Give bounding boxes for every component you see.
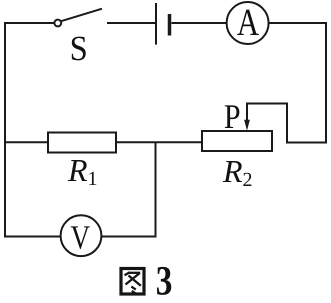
switch S lever bbox=[61, 9, 102, 22]
rheostat R2 box bbox=[202, 131, 272, 151]
wire ammeter to top-right corner bbox=[269, 22, 327, 24]
battery short plate bbox=[168, 14, 172, 36]
wire bottom-right horizontal bbox=[286, 142, 327, 144]
resistor R1 box bbox=[48, 133, 116, 153]
svg-text:A: A bbox=[237, 0, 259, 43]
svg-text:R2: R2 bbox=[222, 153, 253, 191]
caption: character 图 drawn as strokes bbox=[121, 269, 144, 295]
slider P arrowhead bbox=[244, 120, 250, 131]
wire voltmeter to junction bbox=[101, 236, 157, 238]
wire bottom horizontal left of voltmeter bbox=[4, 236, 61, 238]
svg-text:S: S bbox=[70, 29, 88, 68]
wire junction vertical to voltmeter loop bbox=[155, 142, 157, 237]
slider P arrow stem bbox=[246, 103, 248, 124]
wire left to R1 bbox=[4, 141, 48, 143]
voltmeter V circle bbox=[61, 215, 102, 256]
wire battery to ammeter bbox=[172, 22, 227, 24]
wire left vertical bbox=[4, 22, 6, 238]
svg-text:V: V bbox=[70, 219, 90, 256]
switch S pivot bbox=[54, 20, 61, 27]
wire riser to slider bbox=[286, 103, 288, 144]
battery long plate bbox=[155, 3, 157, 45]
svg-text:P: P bbox=[224, 98, 241, 136]
wire top-left horizontal bbox=[4, 22, 55, 24]
svg-text:R1: R1 bbox=[67, 152, 98, 190]
wire right vertical bbox=[325, 22, 327, 144]
wire R1 to R2 bbox=[116, 141, 202, 143]
ammeter A circle bbox=[227, 2, 269, 44]
svg-text:3: 3 bbox=[156, 258, 173, 303]
wire switch to battery bbox=[107, 22, 155, 24]
wire slider horizontal bbox=[246, 103, 288, 105]
